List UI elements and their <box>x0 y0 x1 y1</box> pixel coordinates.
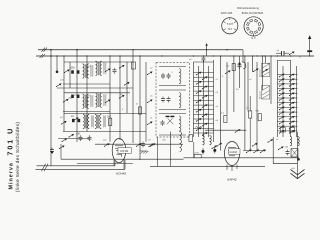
switch contact ladder-m8 <box>202 104 208 108</box>
switch contact ladder-m3 <box>196 81 202 85</box>
switch contact S9 <box>289 51 295 55</box>
value label 2k <box>107 116 112 119</box>
tube V1 cathode <box>117 154 122 157</box>
transformer T1 secondary <box>96 61 106 75</box>
IF transformer screen box <box>156 63 190 138</box>
value label speck13 <box>249 79 252 81</box>
capacitor C15 electrolytic <box>238 63 242 69</box>
node junction busA x133 <box>132 49 133 50</box>
switch contact ladder-r1a <box>279 74 285 78</box>
resistor R7 box <box>291 149 298 157</box>
title Minerva <box>9 162 15 189</box>
svg-text:80FA,NU,5W,5M4: 80FA,NU,5W,5M4 <box>242 11 264 15</box>
capacitor C5 <box>79 135 83 141</box>
svg-text:a g d: a g d <box>227 22 233 26</box>
svg-text:a700: a700 <box>194 152 200 154</box>
switch contact ladder-m13 <box>196 127 202 131</box>
resistor R2 <box>138 107 141 114</box>
wire row y163 <box>77 162 133 164</box>
capacitor C1b block <box>77 70 80 73</box>
switch contact S1b <box>119 65 125 69</box>
switch contact S12 <box>59 145 65 149</box>
coil L15 winding <box>180 132 182 152</box>
node arrow far-right <box>308 35 311 39</box>
value label speck4 <box>60 117 63 119</box>
wire ladder rung 4 <box>194 86 214 88</box>
wire long row y158 <box>184 157 300 159</box>
node junction bus x213.5 <box>213 55 214 56</box>
wire stub trimmer <box>56 56 58 71</box>
value label lm4 <box>216 120 219 122</box>
transformer T2 secondary <box>96 93 106 107</box>
switch contact ladder-m2 <box>202 76 208 80</box>
svg-text:Röhrenbestückung: Röhrenbestückung <box>237 6 259 10</box>
switch contact S2b <box>119 95 125 99</box>
wire ladder rung 5 <box>194 90 214 92</box>
switch contact ladder-m10 <box>202 114 208 118</box>
switch contact ladder-r6b <box>289 97 295 101</box>
wire stage2 mid row <box>63 111 110 113</box>
wire top supply bus B <box>36 55 314 57</box>
wire IF row1 top <box>159 66 186 68</box>
wire rail x140 <box>139 56 141 160</box>
wire rail x239 <box>239 56 241 88</box>
switch contact ladder-m1 <box>196 72 202 76</box>
wire ladder-right rail 4 <box>296 66 298 137</box>
node junction bus x257 <box>256 55 257 56</box>
wire stage3 bottom row <box>63 131 146 133</box>
svg-text:f k f: f k f <box>228 27 232 31</box>
node junction bus x265 <box>264 55 265 56</box>
wire rail x133 <box>132 50 134 143</box>
wire bottom lead 2 <box>36 160 126 169</box>
wire rail x248 <box>247 62 249 112</box>
tube V1 label box <box>118 148 132 153</box>
wire ladder-right rung 10 <box>278 116 298 118</box>
caption tube list left <box>221 11 233 15</box>
svg-text:Minerva: Minerva <box>9 162 15 189</box>
node junction bus x64 <box>63 55 64 56</box>
node junction bus x140 <box>139 55 140 56</box>
wire rail x271 <box>270 56 272 104</box>
wire short top link <box>206 44 208 56</box>
resistor R10 wavy <box>196 127 202 129</box>
node junction bus A x77 <box>76 49 78 51</box>
switch contact ladder-m6 <box>202 95 208 99</box>
switch contact ladder-r13a <box>279 130 285 134</box>
switch contact S7a <box>253 68 259 72</box>
switch contact S8e <box>216 143 222 147</box>
transformer T3 primary <box>83 114 93 128</box>
node junction bus x87 <box>86 55 87 56</box>
title 701 U <box>6 127 15 156</box>
wire top supply bus A <box>38 49 243 51</box>
resistor R6 <box>258 114 261 121</box>
value label c17 <box>277 50 280 52</box>
wire ladder rung 8 <box>194 104 214 106</box>
chassis hatch <box>140 151 149 154</box>
node junction bus x203.5 <box>203 55 204 56</box>
switch contact S8f <box>252 143 258 147</box>
coil IF1b winding <box>179 93 181 108</box>
ladder end box A <box>280 128 285 133</box>
ladder end box B <box>290 128 295 133</box>
switch contact ladder-m9 <box>196 109 202 113</box>
switch contact S3b <box>61 121 67 125</box>
node arrow top x207 <box>205 43 207 46</box>
svg-text:a16: a16 <box>76 133 81 136</box>
resistor R3 <box>232 63 235 70</box>
switch contact ladder-r10b <box>289 116 295 120</box>
wire ladder-left rail 2 <box>198 66 200 137</box>
resistor R5 <box>224 115 227 122</box>
capacitor C17 on bus <box>276 51 289 56</box>
value label speck11 <box>189 59 192 61</box>
wire ladder-right rung 1 <box>278 74 298 76</box>
svg-text:2kΩ: 2kΩ <box>107 116 112 119</box>
caption text line <box>237 6 259 10</box>
value label speck2 <box>74 95 77 97</box>
svg-text:22F6 21B: 22F6 21B <box>221 11 233 15</box>
switch contact ladder-r3b <box>289 83 295 87</box>
value label lm2 <box>216 92 219 94</box>
capacitor C25 box <box>131 62 135 69</box>
wire rail x227 <box>226 62 228 115</box>
tube V2 envelope <box>225 142 240 166</box>
svg-text:UCH42: UCH42 <box>116 172 126 176</box>
wire continuation hatch bottom <box>42 164 49 172</box>
tube V1 envelope <box>112 139 126 163</box>
value label g2 <box>148 140 151 142</box>
value label L10 <box>258 69 261 77</box>
switch contact S11a <box>148 143 154 147</box>
value label speck0 <box>60 80 64 82</box>
wire rail x70 <box>69 62 71 88</box>
tube V2 grid bars <box>228 148 236 156</box>
wire rail x120 <box>119 56 121 140</box>
switch contact ladder-m14 <box>202 132 208 136</box>
switch contact ladder-r8b <box>289 107 295 111</box>
capacitor C21 electrolytic <box>202 148 205 155</box>
wire bottom lead 1 <box>37 160 116 166</box>
wire stage1 top row <box>64 61 133 63</box>
wire far-right lead <box>309 36 311 56</box>
wire ladder-right rung 11 <box>278 121 298 123</box>
value label a251 <box>69 97 74 100</box>
wire ladder rung 2 <box>194 76 214 78</box>
capacitor C7 <box>161 73 165 79</box>
switch contact ladder-r8a <box>279 107 285 111</box>
svg-text:U.Y: U.Y <box>251 36 256 40</box>
wire ladder-right rail 2 <box>282 66 284 137</box>
switch contact ladder-r6a <box>279 97 285 101</box>
wire ladder-right rung 6 <box>278 97 298 99</box>
coil L10 box <box>262 63 270 76</box>
switch contact S1a <box>64 69 70 73</box>
switch contact S10b <box>278 146 284 150</box>
switch contact ladder-r7b <box>289 102 295 106</box>
capacitor C9 <box>161 97 165 103</box>
wire row y159 <box>61 158 184 160</box>
value label L11 <box>258 91 261 99</box>
value label 4a250 <box>70 67 76 70</box>
wire ladder rung 14 <box>194 132 214 134</box>
switch contact S1c <box>124 82 130 86</box>
coil L12 winding <box>290 137 292 146</box>
wire ladder-right rail 3 <box>290 60 292 137</box>
wire ladder-right rung 9 <box>278 111 298 113</box>
wire AVC row <box>205 129 246 131</box>
coil L11 box <box>262 86 270 100</box>
wire IF row2 bottom <box>159 109 186 111</box>
switch contact ladder-m12 <box>202 123 208 127</box>
node junction bus B x51 <box>50 55 52 57</box>
wire ladder-right rung 12 <box>278 125 298 127</box>
switch contact S6b <box>147 99 153 103</box>
node junction busA x227 <box>226 49 227 50</box>
switch contact S6c <box>147 121 153 125</box>
switch contact ladder-r3a <box>279 83 285 87</box>
wire IF row3 bottom <box>159 134 186 136</box>
capacitor C23 <box>141 142 145 148</box>
tube V1 grid bars <box>115 146 123 151</box>
switch contact S7c <box>225 70 231 74</box>
value label r6 <box>256 111 260 113</box>
wire ladder-left rail 1 <box>193 62 195 137</box>
coil L8 winding <box>210 136 212 145</box>
wire ladder rung 3 <box>194 81 214 83</box>
value label speck8 <box>150 96 153 98</box>
wire drop x61 <box>60 144 62 159</box>
wire ladder rung 10 <box>194 113 214 115</box>
wire drop from R4 <box>249 118 251 150</box>
node junction bus x271 <box>270 55 271 56</box>
wire drop x297 <box>297 132 299 178</box>
switch contact ladder-r12a <box>279 125 285 129</box>
switch contact S8a <box>246 149 252 153</box>
capacitor C19 <box>286 150 290 156</box>
wire ladder rung 9 <box>194 109 214 111</box>
tube socket diagram A <box>222 18 238 34</box>
capacitor C4b block <box>78 119 81 122</box>
value label speck15 <box>267 63 270 65</box>
node junction busA x77 <box>76 49 77 50</box>
wire continuation hatch on bus B <box>40 54 46 58</box>
wire ladder rung 6 <box>194 95 214 97</box>
wire ladder-left rail 5 <box>213 60 215 142</box>
value label speck1 <box>88 66 91 68</box>
value label r7 <box>285 147 289 149</box>
wire ladder-right rung 7 <box>278 102 298 104</box>
capacitor C1 block <box>71 70 74 73</box>
value label speck3 <box>88 96 91 98</box>
switch contact ladder-r9a <box>279 111 285 115</box>
wire drop x157 <box>156 137 158 166</box>
capacitor C22 electrolytic <box>213 147 216 154</box>
transformer T1 primary <box>83 64 93 78</box>
coil IF1a winding <box>179 69 181 84</box>
switch contact ladder-r11b <box>289 121 295 125</box>
svg-text:UCH42: UCH42 <box>120 150 129 153</box>
value label speck6 <box>122 109 124 111</box>
capacitor C8 <box>167 73 171 79</box>
switch contact S2c <box>56 83 62 87</box>
switch contact S7b <box>262 69 268 73</box>
wire drop x170 <box>170 132 172 167</box>
capacitor C13 block <box>170 116 174 118</box>
value label r8 <box>194 152 200 154</box>
value label speck18 <box>203 145 205 147</box>
switch contact ladder-m7 <box>196 100 202 104</box>
wire ladder rung 12 <box>194 123 214 125</box>
transformer T3 secondary <box>95 114 105 128</box>
value label g1 <box>103 140 107 142</box>
svg-text:1Ω: 1Ω <box>226 66 229 68</box>
wire ladder-right rung 2 <box>278 78 298 80</box>
coil L13 winding <box>298 137 300 146</box>
switch contact S4b <box>68 134 74 138</box>
capacitor C14 at ladder top <box>202 56 206 62</box>
switch contact ladder-m5 <box>196 90 202 94</box>
capacitor C11 <box>161 120 165 126</box>
capacitor C2 <box>113 68 117 74</box>
switch contact ladder-r5a <box>279 92 285 96</box>
svg-text:701 U: 701 U <box>6 127 15 156</box>
value label speck5 <box>120 94 123 96</box>
wire rail x253 <box>252 56 254 72</box>
switch contact S5c <box>150 143 156 147</box>
wire IF row1 bottom <box>159 85 186 87</box>
resistor R4 <box>249 111 252 118</box>
switch contact S3a <box>73 117 79 121</box>
switch contact S5a <box>104 143 110 147</box>
subtitle linke Seite <box>15 122 21 193</box>
wire stage1 bottom row <box>57 87 133 89</box>
value label speck10 <box>162 140 167 142</box>
value label a16 <box>76 133 81 136</box>
switch contact ladder-r4a <box>279 88 285 92</box>
switch contact ladder-r9b <box>289 111 295 115</box>
coil L7 winding <box>203 136 205 145</box>
wire rail x64 <box>63 56 65 132</box>
node junction bus x193.5 <box>193 55 194 56</box>
switch contact S4a <box>61 138 67 142</box>
capacitor C4 block <box>72 119 75 122</box>
wire rail x262 <box>262 56 264 90</box>
switch contact ladder-r5b <box>289 92 295 96</box>
wire ladder-right top connector <box>278 60 291 62</box>
wire rail x110 <box>109 56 111 142</box>
wire ladder-right rung 13 <box>278 130 298 132</box>
switch contact S1d <box>105 68 111 72</box>
wire ladder rung 1 <box>194 72 214 74</box>
switch contact ladder-m4 <box>202 86 208 90</box>
wire ladder rung 13 <box>194 127 214 129</box>
value label c20 <box>291 168 295 170</box>
caption socket B label <box>251 36 256 40</box>
coil IF1c winding <box>179 116 181 131</box>
capacitor C18 mains <box>307 50 312 52</box>
node junction bus x309.7 <box>309 55 310 56</box>
wire ladder-right rung 8 <box>278 106 298 108</box>
node junction bus x233.9 <box>233 55 234 56</box>
switch contact S10a <box>267 139 273 143</box>
wire grid row <box>95 143 183 145</box>
wire ladder-right rail 1 <box>277 60 279 137</box>
value label r3 <box>226 66 229 68</box>
wire ladder-right rung 5 <box>278 92 298 94</box>
svg-text:Drossel: Drossel <box>258 69 261 77</box>
switch contact S2d <box>105 99 111 103</box>
switch contact S8b <box>253 149 259 153</box>
svg-text:Drossel: Drossel <box>258 91 261 99</box>
wire ladder rung 7 <box>194 99 214 101</box>
node junction bus x57 <box>56 55 57 56</box>
wire bus A corner drop <box>242 50 244 62</box>
wire ladder-left rail 3 <box>203 60 205 137</box>
transformer T2 primary <box>83 94 93 108</box>
wire rail x265 <box>265 56 267 64</box>
wire rail x220 <box>220 56 222 151</box>
capacitor C6 <box>88 135 92 141</box>
capacitor C20 electrolytic <box>297 158 300 161</box>
value label speck12 <box>222 76 224 78</box>
wire long row y166 <box>150 165 265 167</box>
trimmer X marks <box>167 118 174 124</box>
tube socket diagram B <box>244 17 263 36</box>
wire rail gang <box>50 50 52 166</box>
node junction bus x162 <box>161 55 162 56</box>
value label speck19 <box>246 108 250 110</box>
node junction bus A x51 <box>50 49 52 51</box>
wire stage1 mid row <box>63 83 110 85</box>
wire stub above R4 <box>249 96 251 111</box>
tube V2 pin leads <box>227 165 237 172</box>
capacitor C3b block <box>77 95 80 98</box>
wire IF row3 top <box>159 113 186 115</box>
resistor R1 <box>109 118 112 125</box>
wire rail x127 <box>126 62 128 113</box>
switch contact ladder-r2a <box>279 78 285 82</box>
tube V1 pin leads <box>114 160 124 170</box>
value label r5 <box>221 113 225 115</box>
wire cathode row <box>243 150 266 152</box>
value label speck7 <box>150 68 153 70</box>
node junction bus x262.5 <box>262 55 263 56</box>
tube V2 type label <box>227 178 237 182</box>
tube V1 type label <box>116 172 126 176</box>
node junction busA x206.6 <box>206 49 207 50</box>
value label lm1 <box>216 79 219 81</box>
wire ladder-mid top connector <box>194 61 214 63</box>
value label speck17 <box>276 139 279 141</box>
wire stage4 row <box>58 138 90 140</box>
wire IF row2 top <box>159 89 186 91</box>
node junction bus x252.7 <box>252 55 253 56</box>
value label speck14 <box>236 89 239 91</box>
node junction bus x290.5 <box>290 55 291 56</box>
wire rail x245 <box>244 56 246 151</box>
switch contact ladder-r7a <box>279 102 285 106</box>
wire stage2 top row <box>64 92 130 94</box>
switch contact S8d <box>211 145 217 149</box>
switch contact ladder-r12b <box>289 125 295 129</box>
switch contact ladder-r13b <box>289 130 295 134</box>
resistor R8 box <box>194 154 201 157</box>
value label r2 <box>136 104 139 106</box>
tube V2 label box <box>229 149 241 154</box>
switch contact ladder-r4b <box>289 88 295 92</box>
